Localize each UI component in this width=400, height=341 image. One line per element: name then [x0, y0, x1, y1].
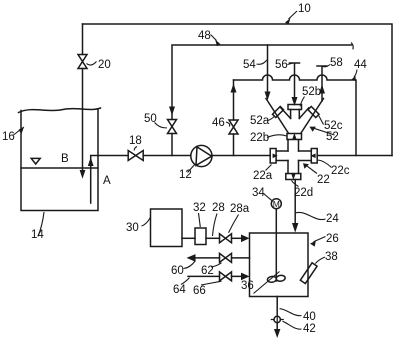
valve 20: [78, 55, 87, 69]
leader 46: [226, 122, 230, 127]
leader 38: [315, 257, 325, 264]
motor 34 circle: [271, 199, 281, 209]
svg-text:36: 36: [241, 280, 254, 292]
manifold 52 inner right wall: [299, 108, 309, 119]
sensor 38: [300, 263, 317, 284]
leader 52a: [268, 116, 275, 121]
vessel 26: [250, 233, 309, 297]
valve 66: [220, 272, 232, 281]
tank water level line: [21, 167, 98, 169]
svg-text:32: 32: [193, 202, 206, 214]
valve 50: [168, 120, 177, 134]
wire left supply vertical (line B): [82, 24, 84, 171]
leader 14: [38, 212, 44, 237]
svg-text:34: 34: [252, 187, 265, 199]
pump 12 impeller triangle: [196, 147, 212, 166]
valve plate 52b: [288, 105, 302, 110]
wire line 64: [188, 275, 242, 277]
svg-text:22: 22: [317, 174, 330, 186]
wire line 54: [267, 45, 269, 92]
agitator propeller 36: [267, 275, 285, 283]
leader 60: [184, 261, 196, 269]
leader 10: [289, 11, 298, 19]
leader 12: [188, 165, 195, 173]
leader 20: [87, 62, 97, 66]
manifold 52 middle channel walls: [291, 110, 300, 119]
leader 56: [288, 63, 293, 64]
leader 52b: [300, 97, 304, 107]
wire line 24: [294, 180, 296, 224]
wire top main loop: [83, 24, 393, 156]
leader 22c: [318, 160, 332, 168]
wire box30 to rect32: [182, 237, 195, 239]
node A arrow: [88, 157, 94, 166]
leader 66: [201, 281, 222, 285]
cross 22 vertical channel walls: [288, 140, 299, 174]
leader 18: [134, 147, 137, 151]
pump 12: [191, 145, 212, 166]
leader 58: [323, 65, 331, 67]
flange 22b flow arrow: [292, 133, 296, 139]
svg-text:10: 10: [298, 3, 311, 15]
flange 22a flow arrow: [273, 154, 278, 159]
flange 22d flow arrow: [291, 174, 295, 180]
wire line 56 with tee top: [290, 63, 300, 97]
svg-text:22c: 22c: [331, 165, 350, 177]
svg-text:22b: 22b: [250, 132, 269, 144]
svg-text:44: 44: [354, 59, 367, 71]
svg-text:66: 66: [193, 285, 206, 297]
inlet 66 arrow: [241, 273, 250, 281]
svg-text:52: 52: [326, 131, 339, 143]
leader 40: [280, 309, 302, 316]
svg-text:56: 56: [275, 59, 288, 71]
svg-text:48: 48: [198, 30, 211, 42]
leader 16: [14, 130, 21, 136]
valve plate 52c: [308, 106, 319, 117]
svg-text:54: 54: [243, 59, 256, 71]
leader 50: [155, 123, 167, 128]
line 58 flow arrow: [319, 85, 325, 94]
wire drain line: [276, 297, 278, 330]
flange 22d: [286, 174, 301, 180]
flange 22c: [311, 149, 317, 164]
svg-text:42: 42: [303, 323, 316, 335]
flange plate 22b: [287, 134, 302, 140]
leader 26: [314, 237, 326, 242]
valve 18: [128, 151, 143, 161]
svg-text:60: 60: [171, 265, 184, 277]
svg-text:20: 20: [98, 59, 111, 71]
svg-text:26: 26: [326, 233, 339, 245]
svg-text:28a: 28a: [230, 203, 250, 215]
svg-text:M: M: [273, 199, 280, 209]
leader 22: [306, 165, 317, 173]
leader 22b: [267, 135, 287, 138]
svg-text:24: 24: [326, 213, 339, 225]
agitator shaft: [275, 209, 277, 281]
svg-text:50: 50: [144, 113, 157, 125]
leader 44: [354, 70, 357, 78]
wire line 58 with tee top: [317, 66, 327, 101]
line 48 end tick: [352, 43, 354, 49]
tank 14: [21, 110, 98, 211]
svg-text:16: 16: [2, 131, 15, 143]
svg-text:40: 40: [303, 311, 316, 323]
line 50 flow arrow: [169, 107, 175, 116]
manifold hood with line jumps: [234, 75, 357, 156]
leader 24: [295, 212, 325, 219]
leader 52c: [319, 116, 324, 125]
flange 22a: [270, 149, 276, 164]
leader 32: [199, 213, 201, 227]
tank 14 wavy surface top: [19, 108, 101, 113]
wire cross to right loop: [317, 155, 392, 157]
svg-text:52b: 52b: [302, 86, 321, 98]
line 46 flow arrow: [231, 84, 237, 93]
flange 22c flow arrow: [310, 154, 315, 159]
wire 32 to valve 28a: [206, 237, 220, 239]
leader 48: [211, 35, 217, 41]
leader 62: [211, 263, 222, 267]
svg-text:22d: 22d: [294, 187, 313, 199]
svg-text:58: 58: [330, 57, 343, 69]
wire line 48: [172, 45, 352, 156]
wire line 46: [233, 80, 235, 156]
svg-text:30: 30: [126, 222, 139, 234]
valve 46: [229, 120, 238, 134]
leader 52: [313, 128, 335, 135]
valve plate 52a: [272, 106, 283, 117]
line 56 flow arrow: [292, 97, 298, 106]
inlet 28 arrow: [241, 235, 250, 243]
line 54 flow arrow: [265, 92, 271, 101]
svg-text:46: 46: [212, 117, 225, 129]
cross 22 horizontal channel walls: [276, 151, 311, 161]
svg-text:12: 12: [179, 169, 192, 181]
valve 28a: [220, 234, 232, 243]
svg-text:64: 64: [173, 284, 186, 296]
wire suction line A: [91, 156, 191, 204]
svg-text:62: 62: [201, 265, 214, 277]
valve 62: [220, 253, 232, 262]
valve 40 stem ticks: [271, 316, 283, 322]
manifold 52 inner left wall: [281, 108, 291, 119]
water level symbol: [31, 158, 40, 164]
leader 64: [181, 278, 190, 285]
leader 34: [264, 194, 273, 201]
leader 22a: [266, 165, 272, 171]
box 30: [151, 209, 183, 247]
node B arrow: [80, 170, 86, 179]
outlet 42 arrow: [274, 329, 280, 338]
leader 22d: [292, 181, 299, 187]
svg-text:52a: 52a: [250, 115, 270, 127]
component 32: [195, 228, 206, 245]
svg-text:A: A: [103, 175, 111, 187]
leader 30: [142, 218, 151, 227]
leader 36: [254, 272, 280, 294]
leader 28: [213, 214, 218, 237]
wire line 60: [195, 257, 250, 259]
svg-text:18: 18: [129, 135, 142, 147]
line 24 arrow into vessel: [292, 223, 298, 233]
leader 54: [257, 60, 267, 64]
outlet 60 arrow: [187, 254, 196, 262]
svg-text:B: B: [61, 153, 69, 165]
svg-text:38: 38: [325, 251, 338, 263]
svg-text:22a: 22a: [253, 170, 273, 182]
svg-text:14: 14: [31, 229, 44, 241]
leader 42: [283, 321, 302, 329]
manifold 52 outer right wall: [301, 99, 324, 134]
valve 40 circle: [274, 316, 280, 322]
svg-text:28: 28: [212, 202, 225, 214]
wire valve 28a to vessel: [232, 237, 242, 239]
manifold 52 outer left wall: [266, 99, 288, 134]
leader 28a: [229, 215, 239, 233]
wire pump to cross: [212, 155, 270, 157]
